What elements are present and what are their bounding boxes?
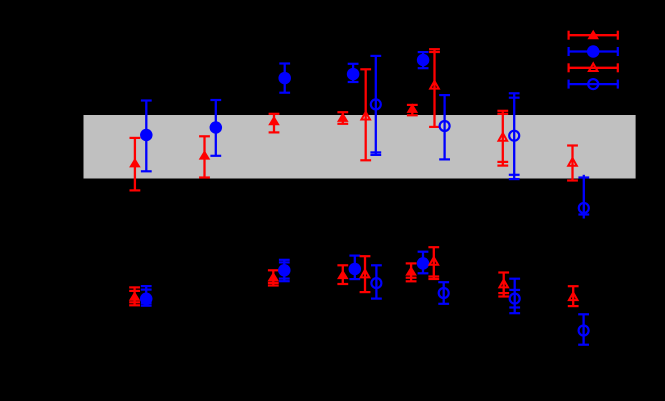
upper point g4 blue open circle: [370, 56, 381, 155]
lower point g5 blue open circle: [438, 282, 449, 304]
upper point g6 blue open circle: [509, 93, 520, 179]
lower point g4 red open triangle: [360, 256, 371, 292]
upper point g5 blue filled circle: [417, 52, 430, 68]
legend entry 4 blue open circle: [569, 79, 618, 89]
lower point g1 red filled triangle: [129, 287, 141, 305]
upper point g1 red filled triangle: [129, 138, 141, 191]
upper point g4 blue filled circle: [347, 64, 360, 82]
upper point g7 blue open circle: [578, 175, 589, 219]
lower point g7 blue open circle: [578, 314, 589, 344]
gray horizontal band: [84, 115, 636, 179]
lower point g7 red open triangle: [568, 286, 579, 306]
upper point g7 red open triangle: [567, 146, 578, 181]
lower point g5 blue filled circle: [417, 252, 430, 274]
upper point g2 blue filled circle: [210, 100, 223, 156]
lower point g4 red filled triangle: [337, 265, 349, 284]
legend entry 3 red open triangle: [569, 63, 618, 72]
upper point g3 blue filled circle: [278, 64, 291, 93]
legend entry 2 blue filled circle: [569, 45, 618, 58]
lower point g5 red filled triangle: [405, 263, 417, 281]
upper point g5 blue open circle: [439, 95, 450, 159]
upper point g4 red filled triangle: [337, 112, 349, 124]
lower point g6 red open triangle: [498, 273, 509, 297]
lower point g6 blue open circle: [509, 279, 520, 314]
upper point g2 red filled triangle: [199, 136, 211, 177]
upper point g5 red filled triangle: [407, 103, 419, 115]
upper point g5 red open triangle: [429, 49, 440, 127]
lower point g5 red open triangle: [428, 247, 439, 279]
lower point g4 blue filled circle: [349, 256, 362, 280]
upper point g1 blue filled circle: [140, 101, 153, 172]
lower point g4 blue open circle: [371, 265, 382, 298]
lower point g3 red filled triangle: [268, 270, 280, 285]
lower point g3 blue filled circle: [278, 260, 291, 281]
lower point g1 blue filled circle: [140, 286, 153, 306]
upper point g4 red open triangle: [360, 69, 371, 160]
upper point g3 red filled triangle: [268, 114, 280, 133]
upper point g6 red open triangle: [497, 111, 508, 166]
legend entry 1 red filled triangle: [569, 30, 618, 40]
